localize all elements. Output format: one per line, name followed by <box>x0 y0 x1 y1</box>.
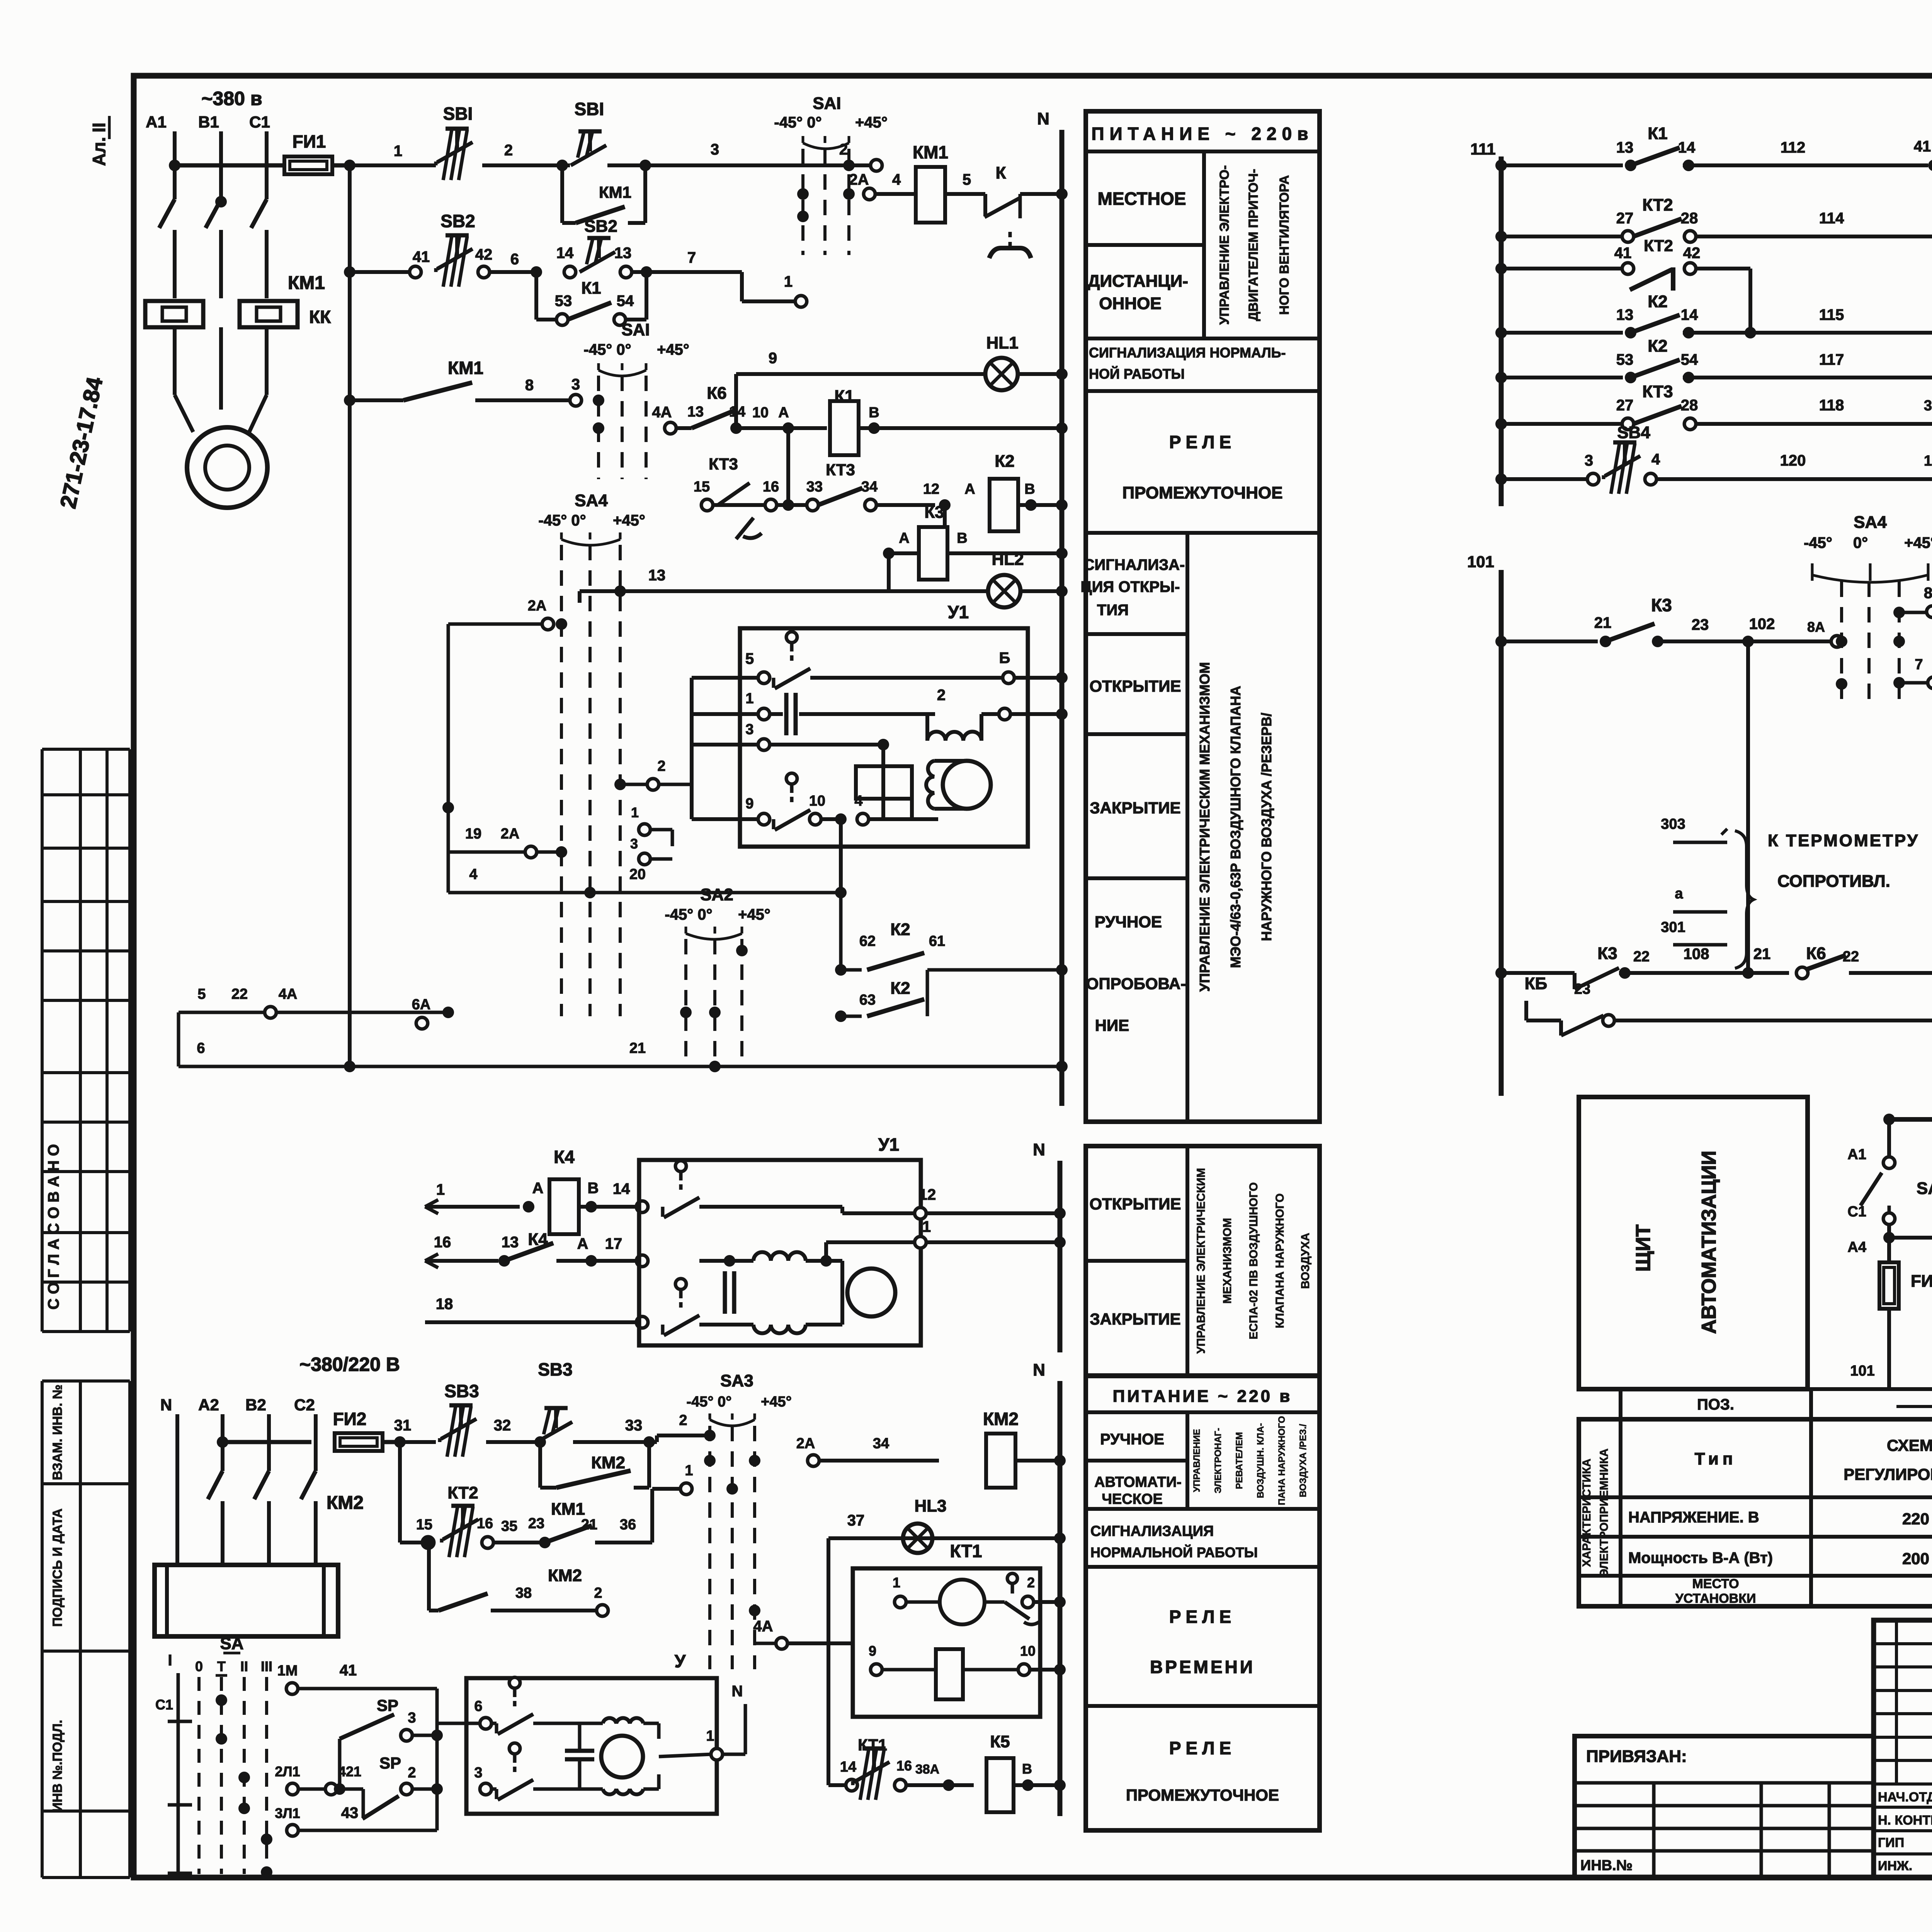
svg-text:ГИП: ГИП <box>1878 1835 1904 1850</box>
rung 3L1-43 <box>287 1825 298 1836</box>
svg-text:8: 8 <box>1924 585 1932 602</box>
svg-text:УПРАВЛЕНИЕ ЭЛЕКТРО-: УПРАВЛЕНИЕ ЭЛЕКТРО- <box>1217 165 1232 325</box>
svg-text:37: 37 <box>847 1512 865 1529</box>
svg-text:43: 43 <box>341 1804 359 1821</box>
svg-text:SB3: SB3 <box>444 1381 479 1401</box>
svg-text:112: 112 <box>1781 139 1806 156</box>
svg-text:К2: К2 <box>1648 292 1667 311</box>
svg-text:А: А <box>899 530 909 546</box>
svg-text:К5: К5 <box>990 1732 1010 1751</box>
rung KT1 14-16 + coil K5 <box>828 1783 846 1787</box>
svg-text:2: 2 <box>657 758 665 774</box>
U1-2 winding/motor <box>753 1252 806 1261</box>
svg-text:12: 12 <box>919 1186 936 1203</box>
svg-text:6А: 6А <box>412 997 431 1013</box>
svg-text:1: 1 <box>893 1575 900 1590</box>
svg-text:У1: У1 <box>948 602 969 622</box>
svg-text:21: 21 <box>581 1517 597 1533</box>
svg-text:-45° 0°: -45° 0° <box>538 512 586 529</box>
svg-text:ДИСТАНЦИ-: ДИСТАНЦИ- <box>1088 272 1188 291</box>
svg-text:МЕСТНОЕ: МЕСТНОЕ <box>1098 189 1186 209</box>
svg-text:КМ1: КМ1 <box>913 142 948 162</box>
tail rung 5-22-4A <box>179 1011 448 1014</box>
tail rung 2A upper <box>542 618 554 630</box>
svg-text:SA3: SA3 <box>720 1371 753 1390</box>
svg-text:36: 36 <box>620 1517 636 1533</box>
svg-text:ХАРАКТЕРИСТИКА: ХАРАКТЕРИСТИКА <box>1580 1459 1593 1567</box>
svg-text:1М: 1М <box>277 1663 298 1679</box>
svg-text:Мощность В-А (Вт): Мощность В-А (Вт) <box>1628 1549 1773 1566</box>
svg-text:3Л1: 3Л1 <box>275 1805 300 1821</box>
svg-text:23: 23 <box>1692 616 1709 633</box>
svg-text:А: А <box>577 1235 588 1252</box>
svg-text:4А: 4А <box>652 404 672 421</box>
svg-text:ОПРОБОВА-: ОПРОБОВА- <box>1086 975 1186 993</box>
svg-text:К3: К3 <box>1597 944 1617 963</box>
svg-text:62: 62 <box>859 933 876 949</box>
box ПРИВЯЗАН <box>1575 1736 1874 1878</box>
svg-text:~380 в: ~380 в <box>201 88 262 109</box>
svg-text:220: 220 <box>1902 1510 1929 1528</box>
svg-text:АВТОМАТИ-: АВТОМАТИ- <box>1094 1474 1182 1490</box>
rung 1 : SB1 chain <box>350 163 436 167</box>
svg-text:114: 114 <box>1819 210 1844 227</box>
svg-text:+45°: +45° <box>761 1394 792 1410</box>
characteristics table <box>1621 1389 1932 1419</box>
svg-text:9: 9 <box>745 796 753 812</box>
KM2 main contacts <box>175 1471 179 1565</box>
svg-text:34: 34 <box>873 1435 889 1452</box>
svg-text:+45°: +45° <box>1904 534 1932 551</box>
svg-text:КМ1: КМ1 <box>448 358 483 378</box>
svg-text:В2: В2 <box>245 1396 266 1414</box>
svg-text:21: 21 <box>1753 946 1771 963</box>
interconnect vertical from rung R1 <box>1746 641 1750 973</box>
svg-text:I: I <box>168 1652 172 1669</box>
svg-text:7: 7 <box>1915 656 1923 673</box>
svg-text:-45° 0°: -45° 0° <box>686 1394 731 1410</box>
svg-text:~380/220 В: ~380/220 В <box>299 1354 400 1375</box>
svg-text:ВЗАМ. ИНВ. №: ВЗАМ. ИНВ. № <box>50 1384 65 1480</box>
svg-text:8: 8 <box>525 377 534 394</box>
svg-text:ЭЛЕКТРОПРИЕМНИКА: ЭЛЕКТРОПРИЕМНИКА <box>1598 1449 1611 1577</box>
svg-text:Тип: Тип <box>1695 1449 1737 1468</box>
svg-text:-45° 0°: -45° 0° <box>774 114 821 131</box>
rows with rotated right column <box>1185 533 1189 1122</box>
svg-text:9: 9 <box>769 350 777 367</box>
svg-text:SА: SА <box>220 1634 243 1653</box>
left stamp column <box>41 749 44 1332</box>
svg-text:Б: Б <box>999 650 1010 667</box>
svg-text:С1: С1 <box>155 1697 173 1713</box>
svg-text:SA4: SA4 <box>575 491 608 510</box>
svg-text:4: 4 <box>469 866 477 883</box>
svg-text:С2: С2 <box>294 1396 315 1414</box>
svg-text:0: 0 <box>195 1658 203 1674</box>
svg-text:К1: К1 <box>581 279 601 298</box>
svg-text:В: В <box>1022 1761 1032 1777</box>
tail rung 19-2A <box>448 850 526 854</box>
svg-text:31: 31 <box>1924 398 1932 414</box>
svg-text:4: 4 <box>854 793 862 809</box>
svg-text:21: 21 <box>1594 614 1612 631</box>
KM1 holding contact <box>560 165 564 223</box>
rung coil K3 <box>943 505 947 553</box>
rung 2 : coil KM1 <box>864 188 875 200</box>
rung KT3 contacts + coil K2 <box>786 428 790 505</box>
svg-text:17: 17 <box>605 1235 622 1252</box>
svg-text:33: 33 <box>806 479 823 495</box>
panel box ЩИТ АВТОМАТИЗАЦИИ <box>1579 1097 1808 1389</box>
rung KT2 41-42 <box>1501 267 1623 270</box>
svg-text:А: А <box>532 1180 544 1197</box>
svg-text:200: 200 <box>1902 1549 1929 1568</box>
svg-text:КМ2: КМ2 <box>327 1493 364 1513</box>
svg-text:ЩИТ: ЩИТ <box>1632 1225 1655 1272</box>
svg-text:КК: КК <box>309 307 331 327</box>
svg-text:111: 111 <box>1470 140 1495 158</box>
svg-text:22: 22 <box>231 986 248 1002</box>
svg-text:3: 3 <box>711 141 719 158</box>
svg-text:N: N <box>732 1683 743 1700</box>
svg-text:+45°: +45° <box>738 906 770 923</box>
rung K1/K5/KT2 <box>1495 160 1507 171</box>
svg-text:В: В <box>869 405 879 421</box>
svg-text:34: 34 <box>861 479 878 495</box>
svg-text:HL3: HL3 <box>914 1497 946 1515</box>
svg-text:УСТАНОВКИ: УСТАНОВКИ <box>1675 1591 1756 1606</box>
svg-text:К4: К4 <box>528 1230 548 1249</box>
rung B : K6 23 <box>1526 1019 1561 1022</box>
svg-text:ПИТАНИЕ ~ 220в: ПИТАНИЕ ~ 220в <box>1092 124 1314 144</box>
svg-text:3: 3 <box>630 836 638 852</box>
svg-text:421: 421 <box>338 1764 361 1779</box>
svg-text:К3: К3 <box>1651 595 1672 615</box>
phase wires A1 B1 C1 <box>173 131 177 199</box>
svg-text:ОТКРЫТИЕ: ОТКРЫТИЕ <box>1090 677 1181 695</box>
svg-text:1: 1 <box>685 1463 693 1479</box>
svg-text:53: 53 <box>555 293 572 310</box>
rung K3 21-23 / 102 <box>1495 636 1507 647</box>
svg-text:21: 21 <box>629 1040 646 1056</box>
svg-text:ОТКРЫТИЕ: ОТКРЫТИЕ <box>1090 1195 1181 1213</box>
rung 1-A-K4-B-14 <box>425 1205 520 1209</box>
svg-text:К1: К1 <box>1648 124 1667 143</box>
svg-text:МЕХАНИЗМОМ: МЕХАНИЗМОМ <box>1221 1218 1234 1304</box>
svg-text:КМ1: КМ1 <box>599 183 631 201</box>
svg-text:2: 2 <box>679 1412 687 1429</box>
rung K2 13-14 / SK1 <box>1501 331 1623 335</box>
svg-text:27: 27 <box>1616 397 1634 414</box>
svg-text:НАЧ.ОТД.: НАЧ.ОТД. <box>1878 1790 1932 1804</box>
svg-text:КМ1: КМ1 <box>551 1500 585 1519</box>
svg-text:33: 33 <box>625 1417 643 1434</box>
svg-text:38: 38 <box>515 1585 532 1601</box>
svg-text:54: 54 <box>1681 351 1698 368</box>
U1 contact 9-10 <box>692 817 759 821</box>
svg-text:20: 20 <box>629 866 646 883</box>
svg-text:К4: К4 <box>554 1147 575 1167</box>
svg-text:К ТЕРМОМЕТРУ: К ТЕРМОМЕТРУ <box>1768 831 1919 850</box>
svg-text:42: 42 <box>1683 245 1701 262</box>
svg-text:13: 13 <box>648 567 666 584</box>
svg-text:SA6: SA6 <box>1917 1179 1932 1198</box>
svg-text:108: 108 <box>1684 946 1709 963</box>
svg-text:10: 10 <box>1020 1643 1036 1659</box>
svg-text:N: N <box>1037 109 1049 128</box>
svg-text:+45°: +45° <box>613 512 645 529</box>
svg-text:SB2: SB2 <box>584 217 617 236</box>
control tap bus with fuse FU2 <box>217 1436 228 1448</box>
tail rung 4-20 <box>448 891 841 895</box>
U1 contact 5-Б <box>692 676 759 680</box>
svg-text:НАПРЯЖЕНИЕ. В: НАПРЯЖЕНИЕ. В <box>1628 1509 1759 1526</box>
svg-text:РУЧНОЕ: РУЧНОЕ <box>1100 1431 1164 1448</box>
svg-text:УПРАВЛЕНИЕ: УПРАВЛЕНИЕ <box>1192 1429 1202 1492</box>
A bus (lighting) <box>1889 1117 1932 1122</box>
svg-text:РЕВАТЕЛЕМ: РЕВАТЕЛЕМ <box>1234 1432 1245 1489</box>
svg-text:28: 28 <box>1681 210 1698 227</box>
svg-text:УПРАВЛЕНИЕ ЭЛЕКТРИЧЕСКИМ МЕХА: УПРАВЛЕНИЕ ЭЛЕКТРИЧЕСКИМ МЕХАНИЗМОМ <box>1197 662 1213 992</box>
svg-text:9: 9 <box>869 1643 876 1659</box>
svg-text:ВОЗДУХА: ВОЗДУХА <box>1299 1233 1312 1289</box>
svg-text:SAI: SAI <box>813 94 841 113</box>
svg-text:ТИЯ: ТИЯ <box>1097 602 1129 619</box>
step up to 1 <box>650 1489 654 1543</box>
table block3 captions <box>1086 1376 1320 1830</box>
rung 18 <box>425 1320 637 1324</box>
svg-text:42: 42 <box>475 246 493 263</box>
svg-text:Н. КОНТР: Н. КОНТР <box>1878 1813 1932 1828</box>
KM2 holding contact <box>538 1442 542 1488</box>
U1 gear box <box>856 766 912 799</box>
svg-text:14: 14 <box>1678 139 1696 156</box>
svg-text:РЕГУЛИРОВАНИЯ: РЕГУЛИРОВАНИЯ <box>1844 1465 1932 1483</box>
motor M <box>175 395 193 432</box>
svg-text:ЕСПА-02 ПВ ВОЗДУШНОГО: ЕСПА-02 ПВ ВОЗДУШНОГО <box>1247 1182 1260 1340</box>
svg-text:ПРОМЕЖУТОЧНОЕ: ПРОМЕЖУТОЧНОЕ <box>1122 483 1282 502</box>
svg-text:В: В <box>588 1180 599 1197</box>
A4 jumper to FU4 <box>1889 1236 1932 1240</box>
svg-text:РЕЛЕ: РЕЛЕ <box>1169 1607 1236 1627</box>
rung 3 : SB2 chain <box>348 165 352 1066</box>
U motor + capacitor <box>533 1722 603 1725</box>
svg-text:ПРОМЕЖУТОЧНОЕ: ПРОМЕЖУТОЧНОЕ <box>1126 1786 1279 1804</box>
U1-2 top contact <box>675 1161 686 1172</box>
table block2 captions <box>1086 1146 1320 1376</box>
svg-text:19: 19 <box>465 826 481 842</box>
svg-text:-45° 0°: -45° 0° <box>583 341 631 358</box>
rung HL1 signal lamp <box>734 374 738 428</box>
svg-text:23: 23 <box>1574 981 1590 997</box>
svg-text:ЦИЯ ОТКРЫ-: ЦИЯ ОТКРЫ- <box>1081 578 1180 595</box>
svg-text:2А: 2А <box>849 171 869 188</box>
svg-text:4А: 4А <box>753 1618 773 1635</box>
svg-text:ПОЗ.: ПОЗ. <box>1697 1396 1734 1413</box>
U1-2 bottom contact <box>675 1279 686 1289</box>
svg-text:41: 41 <box>1914 138 1931 155</box>
svg-text:4: 4 <box>1651 451 1660 468</box>
svg-text:С1: С1 <box>1847 1204 1866 1220</box>
svg-text:16: 16 <box>434 1234 451 1251</box>
svg-text:SB2: SB2 <box>440 211 475 231</box>
svg-text:SA2: SA2 <box>700 885 733 904</box>
K thermostat contact <box>983 194 987 216</box>
svg-text:115: 115 <box>1819 306 1844 323</box>
svg-text:13: 13 <box>1616 306 1634 323</box>
svg-text:120: 120 <box>1780 452 1806 469</box>
svg-text:НОРМАЛЬНОЙ РАБОТЫ: НОРМАЛЬНОЙ РАБОТЫ <box>1090 1544 1258 1560</box>
svg-text:31: 31 <box>394 1417 412 1434</box>
svg-text:41: 41 <box>340 1662 357 1679</box>
svg-text:14: 14 <box>840 1759 856 1775</box>
svg-text:В: В <box>957 530 967 546</box>
svg-text:3: 3 <box>571 376 580 393</box>
left risers to lower rungs <box>690 678 694 819</box>
svg-text:6: 6 <box>197 1040 205 1056</box>
svg-text:К2: К2 <box>1648 337 1667 355</box>
svg-text:35: 35 <box>501 1518 517 1534</box>
svg-text:НИЕ: НИЕ <box>1095 1016 1129 1034</box>
svg-text:SB3: SB3 <box>538 1359 572 1379</box>
svg-text:ПРИВЯЗАН:: ПРИВЯЗАН: <box>1586 1747 1687 1766</box>
svg-text:КТ2: КТ2 <box>447 1483 478 1502</box>
svg-text:13: 13 <box>502 1234 519 1251</box>
rung KM2 coil <box>808 1455 819 1466</box>
rung K2 53-54 / SK2 <box>1501 376 1623 379</box>
svg-text:0°: 0° <box>1853 534 1868 551</box>
svg-text:ИНВ.№: ИНВ.№ <box>1580 1857 1633 1874</box>
svg-text:В: В <box>1024 481 1035 497</box>
svg-text:14: 14 <box>1681 306 1698 323</box>
svg-text:2А: 2А <box>796 1435 815 1452</box>
svg-text:ИНЖ.: ИНЖ. <box>1878 1859 1912 1873</box>
heater box <box>155 1565 338 1636</box>
svg-text:КМ2: КМ2 <box>983 1409 1019 1429</box>
rung A : K3 22 / 108 / 21 / K6 22 <box>1501 971 1575 975</box>
rung 16-13-K4-A-17 <box>425 1259 498 1263</box>
svg-text:13: 13 <box>1924 453 1932 469</box>
svg-text:8А: 8А <box>1807 619 1825 635</box>
svg-text:СИГНАЛИЗА-: СИГНАЛИЗА- <box>1083 556 1185 573</box>
svg-text:1: 1 <box>745 690 753 707</box>
svg-text:МЕСТО: МЕСТО <box>1692 1577 1739 1591</box>
svg-text:41: 41 <box>1614 245 1632 262</box>
svg-text:-45° 0°: -45° 0° <box>665 906 712 923</box>
title block <box>1874 1620 1932 1878</box>
svg-text:КМ2: КМ2 <box>548 1566 582 1585</box>
svg-text:18: 18 <box>436 1296 453 1313</box>
svg-text:117: 117 <box>1819 351 1844 368</box>
svg-text:4: 4 <box>892 171 901 188</box>
svg-text:III: III <box>261 1658 272 1674</box>
svg-text:16: 16 <box>896 1758 912 1774</box>
svg-text:FИ1: FИ1 <box>293 131 326 151</box>
contactor KM1 main contacts <box>159 199 175 228</box>
KT1 coil rung 9-10 <box>871 1664 882 1675</box>
svg-text:53: 53 <box>1616 351 1634 368</box>
svg-text:101: 101 <box>1850 1363 1874 1379</box>
svg-text:А1: А1 <box>146 113 167 131</box>
svg-text:а: а <box>1675 886 1683 902</box>
thermometer stubs 303 / a / 301 <box>1673 841 1727 844</box>
svg-text:У1: У1 <box>878 1134 899 1155</box>
rung 4 : KM1 aux + SA1 lower <box>344 395 355 406</box>
svg-text:2Л1: 2Л1 <box>275 1764 300 1779</box>
svg-text:ЧЕСКОЕ: ЧЕСКОЕ <box>1102 1491 1163 1507</box>
svg-text:5: 5 <box>197 986 206 1002</box>
svg-text:303: 303 <box>1661 816 1685 832</box>
svg-text:3: 3 <box>745 721 753 738</box>
rung HL2 signal lamp <box>580 589 889 593</box>
svg-text:N: N <box>160 1396 172 1414</box>
rung KT2/KM1 interlock <box>398 1442 402 1543</box>
svg-text:К2: К2 <box>890 979 910 998</box>
rung 1M-41 <box>286 1683 298 1694</box>
svg-text:FИ3: FИ3 <box>1911 1272 1932 1291</box>
svg-text:N: N <box>1033 1140 1045 1159</box>
svg-text:63: 63 <box>859 992 876 1008</box>
svg-text:1: 1 <box>922 1218 931 1235</box>
tail rung 21 <box>179 1065 1062 1068</box>
svg-text:2: 2 <box>937 687 946 704</box>
svg-text:13: 13 <box>614 245 632 262</box>
table block1 captions <box>1086 111 1320 1122</box>
svg-text:К: К <box>996 163 1006 182</box>
svg-text:ЗАКРЫТИЕ: ЗАКРЫТИЕ <box>1090 1310 1180 1328</box>
svg-text:-45°: -45° <box>1804 534 1832 551</box>
svg-text:РЕЛЕ: РЕЛЕ <box>1169 432 1236 452</box>
svg-text:16: 16 <box>477 1515 493 1532</box>
svg-text:SA4: SA4 <box>1854 513 1887 532</box>
svg-text:КТ3: КТ3 <box>709 455 738 473</box>
svg-text:СИГНАЛИЗАЦИЯ НОРМАЛЬ-: СИГНАЛИЗАЦИЯ НОРМАЛЬ- <box>1089 345 1286 361</box>
U1 motor winding <box>927 731 981 741</box>
svg-text:+45°: +45° <box>657 341 689 358</box>
svg-text:7: 7 <box>687 249 696 266</box>
rung SB3 chain <box>400 1440 436 1444</box>
svg-text:ПИТАНИЕ ~ 220 в: ПИТАНИЕ ~ 220 в <box>1113 1387 1293 1406</box>
svg-text:НОГО ВЕНТИЛЯТОРА: НОГО ВЕНТИЛЯТОРА <box>1277 175 1292 315</box>
svg-text:В1: В1 <box>198 113 219 131</box>
svg-text:ОННОЕ: ОННОЕ <box>1099 294 1161 313</box>
svg-text:РЕЛЕ: РЕЛЕ <box>1169 1738 1236 1758</box>
svg-text:SBI: SBI <box>443 104 473 124</box>
svg-text:II: II <box>89 122 109 133</box>
svg-text:МЭО-4/63-0,63Р ВОЗДУШНОГО КЛ: МЭО-4/63-0,63Р ВОЗДУШНОГО КЛАПАНА <box>1228 686 1243 968</box>
rung 7-104-2A <box>1905 681 1928 685</box>
switch SA6 + fuse FU3 column <box>1883 1114 1895 1125</box>
svg-text:НОЙ РАБОТЫ: НОЙ РАБОТЫ <box>1089 366 1185 382</box>
svg-text:КМ2: КМ2 <box>591 1453 625 1472</box>
svg-text:3: 3 <box>474 1765 482 1781</box>
U1 rung 3 <box>692 743 759 747</box>
time contact KT3 <box>718 483 750 505</box>
svg-text:61: 61 <box>929 933 945 949</box>
svg-text:ЗАКРЫТИЕ: ЗАКРЫТИЕ <box>1090 799 1180 817</box>
U1 capacitor rung 1-2 <box>692 712 759 716</box>
svg-text:ВОЗДУХА /РЕЗ./: ВОЗДУХА /РЕЗ./ <box>1298 1424 1308 1497</box>
svg-text:КТ3: КТ3 <box>1642 382 1673 401</box>
svg-text:10: 10 <box>809 793 825 809</box>
svg-text:А2: А2 <box>198 1396 219 1414</box>
dashes in POS row <box>1896 1405 1932 1408</box>
svg-text:Т: Т <box>217 1658 226 1674</box>
svg-text:SAI: SAI <box>621 320 650 339</box>
svg-text:ПАНА НАРУЖНОГО: ПАНА НАРУЖНОГО <box>1277 1416 1287 1505</box>
svg-text:22: 22 <box>1633 949 1650 965</box>
svg-text:1: 1 <box>631 804 639 820</box>
